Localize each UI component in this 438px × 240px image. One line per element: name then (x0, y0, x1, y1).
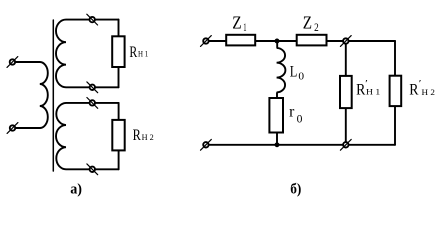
label L0 (290, 63, 305, 82)
transformer core (52, 20, 54, 171)
label RH1' (356, 78, 380, 98)
svg-text:H 1: H 1 (138, 50, 148, 59)
wire loop2 right bottom (118, 150, 120, 169)
svg-text:2: 2 (314, 20, 319, 34)
svg-text:R: R (133, 127, 141, 144)
svg-text:а): а) (70, 182, 82, 198)
wire loop2 right top (118, 103, 120, 120)
svg-text:H 1: H 1 (366, 87, 380, 97)
label Z2 (303, 13, 319, 35)
terminal b input top (201, 36, 212, 47)
terminal secondary1 top (87, 14, 98, 25)
wire r0 to rail (276, 133, 278, 145)
terminal secondary1 bottom (87, 82, 98, 93)
resistor RH1 (112, 36, 124, 67)
wire RH1' top (345, 41, 347, 76)
svg-text:0: 0 (298, 71, 304, 83)
terminal primary top (7, 57, 18, 68)
wire loop1 right top (118, 20, 120, 37)
svg-text:0: 0 (297, 114, 303, 126)
svg-text:Z: Z (232, 13, 241, 33)
label Z1 (232, 13, 246, 34)
secondary winding W2 (56, 20, 119, 88)
resistor r0 (269, 98, 283, 133)
terminal b output top (340, 36, 351, 47)
impedance Z2 (297, 35, 327, 46)
primary winding W1 (40, 62, 48, 128)
terminal b output bottom (340, 139, 351, 150)
wire loop1 right bottom (118, 67, 120, 87)
wire primary top (16, 61, 40, 63)
svg-text:R: R (356, 82, 365, 99)
label RH2' (409, 78, 435, 98)
resistor RH2' (390, 76, 402, 106)
wire primary bottom (16, 127, 40, 129)
node junction top (275, 39, 280, 44)
terminal secondary2 top (87, 98, 98, 109)
svg-text:L: L (290, 63, 298, 80)
terminal b input bottom (201, 139, 212, 150)
svg-text:H 2: H 2 (422, 87, 435, 97)
secondary winding W3 (56, 103, 119, 169)
svg-text:H 2: H 2 (142, 133, 154, 142)
resistor RH1' (340, 76, 352, 108)
terminal secondary2 bottom (87, 164, 98, 175)
svg-text:б): б) (290, 182, 301, 198)
label RH2 (133, 127, 154, 144)
wire top rail b (209, 40, 395, 42)
svg-text:R: R (129, 44, 137, 61)
label RH1 (129, 44, 148, 61)
label r0 (289, 103, 302, 125)
impedance Z1 (226, 35, 255, 46)
svg-text:r: r (289, 103, 295, 120)
svg-text:Z: Z (303, 13, 312, 33)
wire RH2' branch (394, 41, 396, 145)
node junction bottom (275, 142, 280, 147)
svg-text:1: 1 (243, 20, 246, 34)
wire bottom rail b (209, 144, 395, 146)
resistor RH2 (112, 120, 124, 150)
inductor L0 (277, 41, 286, 98)
svg-text:R: R (409, 82, 418, 99)
wire RH1' bottom (345, 108, 347, 145)
terminal primary bottom (7, 123, 18, 134)
